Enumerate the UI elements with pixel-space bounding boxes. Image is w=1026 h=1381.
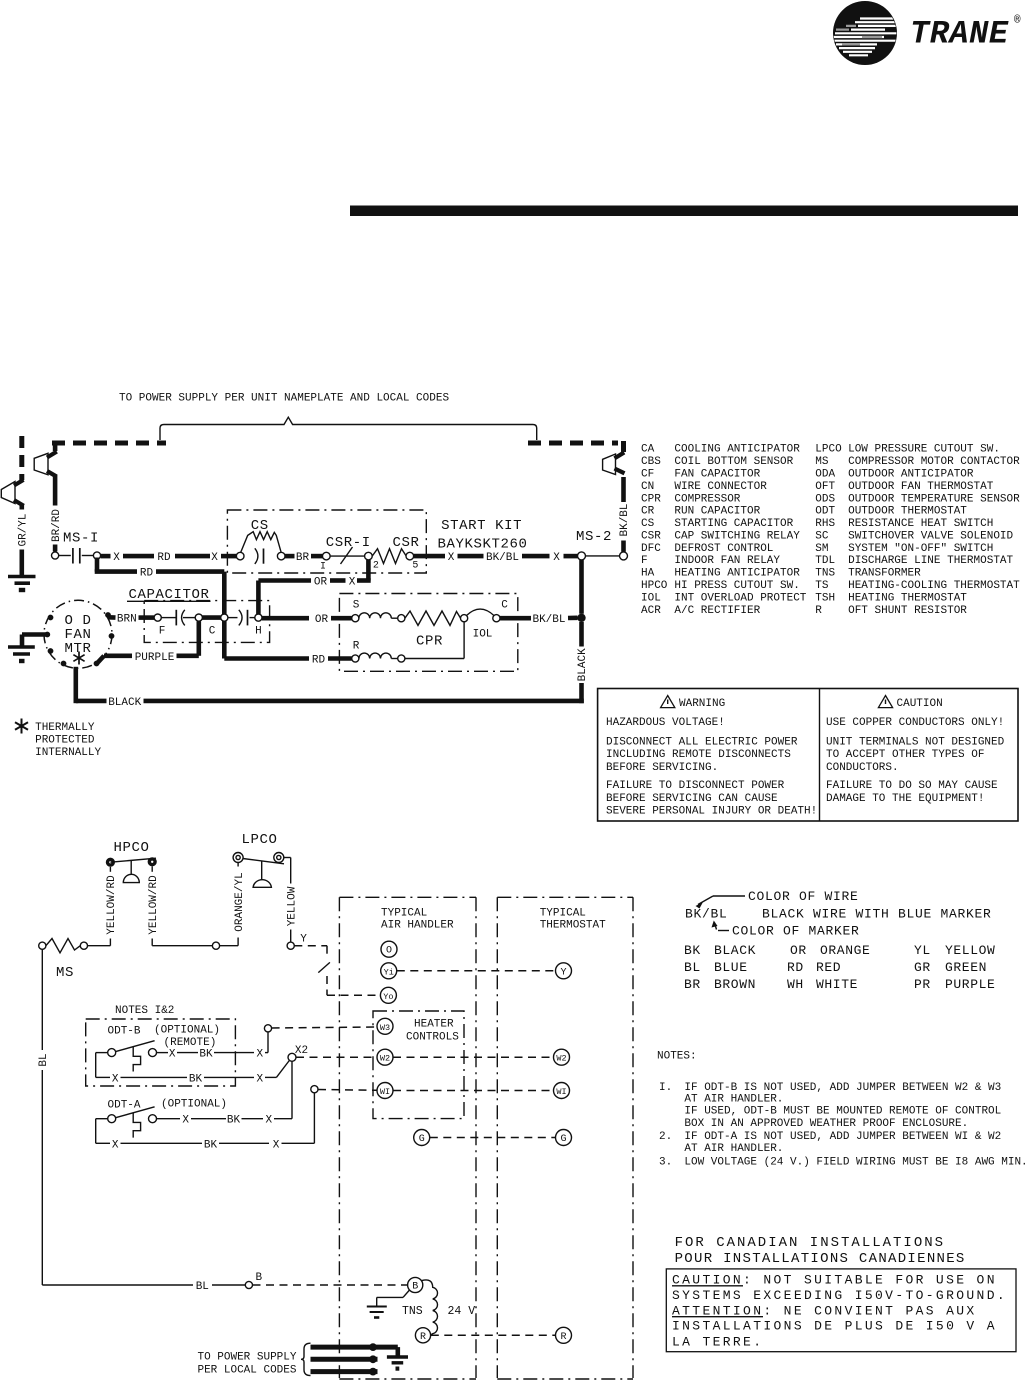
wire MS to HPCO bbox=[88, 945, 111, 947]
svg-text:BK/BL: BK/BL bbox=[619, 503, 631, 536]
capacitor terminal F bbox=[154, 614, 161, 621]
svg-text:THERMOSTAT: THERMOSTAT bbox=[540, 920, 606, 932]
wire ODT-B left X BK X to X2 bbox=[96, 1053, 290, 1086]
svg-text:RED: RED bbox=[816, 960, 841, 975]
svg-text:X: X bbox=[273, 1139, 280, 1151]
svg-text:DISCONNECT ALL ELECTRIC POWER: DISCONNECT ALL ELECTRIC POWER bbox=[606, 737, 798, 749]
node B splice bbox=[245, 1281, 252, 1288]
svg-text:GR/YL: GR/YL bbox=[18, 513, 30, 546]
CPR run winding R bbox=[352, 622, 464, 662]
svg-text:2.: 2. bbox=[659, 1131, 672, 1143]
svg-text:B: B bbox=[256, 1272, 263, 1284]
svg-text:PR: PR bbox=[914, 977, 931, 992]
wire dashed to W1 bbox=[318, 1089, 377, 1092]
svg-text:TRANSFORMER: TRANSFORMER bbox=[848, 568, 921, 580]
svg-text:BOX IN AN APPROVED WEATHER PRO: BOX IN AN APPROVED WEATHER PROOF ENCLOSU… bbox=[684, 1118, 968, 1130]
svg-text:ORANGE: ORANGE bbox=[820, 943, 870, 958]
transformer TNS terminal R bbox=[415, 1328, 430, 1343]
svg-text:CBS: CBS bbox=[641, 456, 661, 468]
svg-text:CONDUCTORS.: CONDUCTORS. bbox=[826, 762, 899, 774]
brace under power supply label bbox=[160, 417, 537, 440]
wire dashed supply left bbox=[52, 441, 166, 446]
svg-text:COOLING ANTICIPATOR: COOLING ANTICIPATOR bbox=[674, 444, 800, 456]
node X2 bbox=[288, 1053, 296, 1061]
ground (TNS) bbox=[367, 1307, 387, 1318]
svg-text:WI: WI bbox=[380, 1087, 390, 1097]
capacitor terminal H bbox=[255, 614, 262, 621]
svg-text:HEATING-COOLING THERMOSTAT: HEATING-COOLING THERMOSTAT bbox=[848, 580, 1020, 592]
wire dashed Y to switch to Yo bbox=[294, 946, 380, 996]
thermostat ODT-B bbox=[108, 1025, 221, 1072]
canadian caution box bbox=[666, 1269, 1016, 1352]
svg-text:NOTES:: NOTES: bbox=[657, 1050, 697, 1062]
svg-text:STARTING CAPACITOR: STARTING CAPACITOR bbox=[674, 518, 793, 530]
svg-text:X: X bbox=[211, 552, 218, 564]
svg-text:F: F bbox=[641, 555, 648, 567]
svg-text:AT AIR HANDLER.: AT AIR HANDLER. bbox=[684, 1143, 783, 1155]
CPR start winding S bbox=[352, 600, 405, 622]
svg-text:Y: Y bbox=[560, 967, 566, 978]
svg-text:BK: BK bbox=[204, 1139, 218, 1151]
svg-text:YL: YL bbox=[914, 943, 931, 958]
svg-text:I: I bbox=[320, 562, 326, 573]
svg-text:WARNING: WARNING bbox=[679, 698, 725, 710]
svg-text:BLACK: BLACK bbox=[577, 648, 589, 681]
svg-text:DISCHARGE LINE THERMOSTAT: DISCHARGE LINE THERMOSTAT bbox=[848, 555, 1013, 567]
compressor box CPR bbox=[339, 594, 517, 672]
svg-text:ORANGE/YL: ORANGE/YL bbox=[234, 872, 246, 931]
svg-text:X: X bbox=[112, 1073, 119, 1085]
svg-text:PURPLE: PURPLE bbox=[135, 652, 175, 664]
wire BLACK bottom run bbox=[76, 667, 584, 709]
svg-text:YELLOW: YELLOW bbox=[945, 943, 995, 958]
svg-text:FAILURE TO DISCONNECT POWER: FAILURE TO DISCONNECT POWER bbox=[606, 780, 785, 792]
wire YELLOW to Y bbox=[284, 858, 299, 943]
svg-text:RD: RD bbox=[157, 552, 171, 564]
svg-text:HPCO: HPCO bbox=[113, 840, 149, 856]
svg-text:CA: CA bbox=[641, 444, 655, 456]
svg-text:RESISTANCE HEAT SWITCH: RESISTANCE HEAT SWITCH bbox=[848, 518, 993, 530]
svg-text:SM: SM bbox=[815, 543, 828, 555]
svg-text:LOW VOLTAGE (24 V.) FIELD WIRI: LOW VOLTAGE (24 V.) FIELD WIRING MUST BE… bbox=[684, 1156, 1026, 1168]
svg-text:WIRE CONNECTOR: WIRE CONNECTOR bbox=[674, 481, 767, 493]
svg-text:SYSTEM "ON-OFF" SWITCH: SYSTEM "ON-OFF" SWITCH bbox=[848, 543, 993, 555]
pressure switch HPCO bbox=[106, 840, 157, 883]
svg-text:HI PRESS CUTOUT SW.: HI PRESS CUTOUT SW. bbox=[674, 580, 799, 592]
wire BLACK MS-2 down bbox=[577, 560, 589, 703]
svg-text:BR: BR bbox=[296, 552, 310, 564]
TRANE logo circle bbox=[833, 1, 897, 65]
svg-text:INTERNALLY: INTERNALLY bbox=[35, 747, 101, 759]
warning triangle bbox=[661, 696, 675, 708]
svg-text:BK/BL: BK/BL bbox=[685, 907, 728, 922]
svg-text:TO POWER SUPPLY: TO POWER SUPPLY bbox=[197, 1352, 296, 1364]
svg-text:CONTROLS: CONTROLS bbox=[406, 1032, 459, 1044]
wire RD from MS-1 down to capacitor/CPR bbox=[95, 558, 352, 667]
svg-text:HAZARDOUS VOLTAGE!: HAZARDOUS VOLTAGE! bbox=[606, 717, 725, 729]
svg-text:UNIT TERMINALS NOT DESIGNED: UNIT TERMINALS NOT DESIGNED bbox=[826, 737, 1005, 749]
svg-text:IF ODT-B IS NOT USED, ADD JUMP: IF ODT-B IS NOT USED, ADD JUMPER BETWEEN… bbox=[684, 1082, 1001, 1094]
wire BR/RD to MS-1 bbox=[53, 545, 58, 552]
svg-text:OFT: OFT bbox=[815, 481, 835, 493]
svg-text:R: R bbox=[815, 605, 822, 617]
svg-text:WI: WI bbox=[556, 1087, 566, 1097]
svg-text:F: F bbox=[159, 626, 166, 638]
svg-text:OR: OR bbox=[314, 577, 328, 589]
warning text bbox=[606, 698, 817, 818]
thermally protected note bbox=[35, 722, 101, 759]
svg-text:SWITCHOVER VALVE SOLENOID: SWITCHOVER VALVE SOLENOID bbox=[848, 530, 1013, 542]
wire ODT-A left X BK X to W1 node bbox=[96, 1093, 315, 1152]
svg-text:CF: CF bbox=[641, 469, 654, 481]
svg-text:WHITE: WHITE bbox=[816, 977, 858, 992]
svg-text:INCLUDING REMOTE DISCONNECTS: INCLUDING REMOTE DISCONNECTS bbox=[606, 749, 791, 761]
wire dashed W1 to W1 bbox=[393, 1090, 553, 1092]
svg-text:3.: 3. bbox=[659, 1156, 672, 1168]
wire dashed R to thermostat R bbox=[431, 1334, 556, 1336]
svg-text:BK: BK bbox=[684, 943, 701, 958]
svg-text:RD: RD bbox=[312, 655, 326, 667]
node junction on RD wire bbox=[221, 614, 228, 621]
svg-text:IOL: IOL bbox=[641, 592, 661, 604]
wire PURPLE motor to C bbox=[97, 621, 199, 663]
svg-text:DFC: DFC bbox=[641, 543, 661, 555]
svg-text:B: B bbox=[412, 1282, 418, 1293]
svg-text:W2: W2 bbox=[380, 1054, 390, 1064]
wire connector CN MS-2 bbox=[603, 452, 625, 474]
svg-text:RD: RD bbox=[140, 568, 154, 580]
svg-text:BROWN: BROWN bbox=[714, 977, 756, 992]
svg-text:POUR INSTALLATIONS CANADIENNES: POUR INSTALLATIONS CANADIENNES bbox=[675, 1251, 966, 1267]
svg-text:OR: OR bbox=[790, 943, 807, 958]
svg-text:OR: OR bbox=[315, 614, 329, 626]
svg-text:PURPLE: PURPLE bbox=[945, 977, 995, 992]
svg-text:AT AIR HANDLER.: AT AIR HANDLER. bbox=[684, 1093, 783, 1105]
svg-text:COMPRESSOR MOTOR CONTACTOR: COMPRESSOR MOTOR CONTACTOR bbox=[848, 456, 1020, 468]
wire MS-2 up to connector BK/BL bbox=[619, 477, 631, 552]
svg-text:LA TERRE.: LA TERRE. bbox=[672, 1335, 763, 1350]
svg-text:ACR: ACR bbox=[641, 605, 661, 617]
wire dashed GR/YL drop bbox=[19, 436, 24, 480]
svg-text:CPR: CPR bbox=[416, 634, 443, 650]
svg-text:OFT SHUNT RESISTOR: OFT SHUNT RESISTOR bbox=[848, 605, 967, 617]
svg-text:BRN: BRN bbox=[117, 614, 137, 626]
wire connector CN BR/RD bbox=[34, 444, 57, 506]
svg-text:X: X bbox=[169, 1049, 176, 1061]
svg-text:OUTDOOR THERMOSTAT: OUTDOOR THERMOSTAT bbox=[848, 506, 967, 518]
svg-text:ODS: ODS bbox=[815, 493, 835, 505]
ground (motor) bbox=[8, 647, 35, 661]
svg-text:HEATING ANTICIPATOR: HEATING ANTICIPATOR bbox=[674, 568, 800, 580]
svg-text:Yi: Yi bbox=[384, 967, 394, 977]
svg-text:ODT-B: ODT-B bbox=[108, 1026, 141, 1038]
wire X2 down to ODT-A bbox=[291, 1061, 293, 1118]
svg-text:TYPICAL: TYPICAL bbox=[540, 908, 586, 920]
wire dashed Yi to Y thermostat bbox=[397, 970, 556, 972]
node Y bbox=[287, 942, 294, 949]
svg-text:AIR HANDLER: AIR HANDLER bbox=[381, 920, 454, 932]
svg-text:X: X bbox=[182, 1115, 189, 1127]
svg-text:TRANE: TRANE bbox=[910, 16, 1009, 53]
motor OD FAN MTR bbox=[44, 600, 114, 668]
pressure switch LPCO bbox=[233, 832, 284, 887]
svg-text:TO ACCEPT OTHER TYPES OF: TO ACCEPT OTHER TYPES OF bbox=[826, 749, 984, 761]
svg-text:LPCO: LPCO bbox=[241, 832, 277, 848]
starting capacitor CS bbox=[236, 518, 285, 564]
overload IOL bbox=[461, 600, 509, 641]
wire YELLOW/RD left bbox=[106, 867, 118, 946]
svg-text:Yo: Yo bbox=[383, 992, 393, 1002]
svg-text:SYSTEMS EXCEEDING I50V-TO-GROU: SYSTEMS EXCEEDING I50V-TO-GROUND. bbox=[672, 1288, 1007, 1303]
wire ORANGE/YL bbox=[234, 863, 246, 946]
svg-text:W3: W3 bbox=[380, 1023, 390, 1033]
svg-text:NOTES I&2: NOTES I&2 bbox=[115, 1005, 174, 1017]
svg-text:YELLOW/RD: YELLOW/RD bbox=[148, 875, 160, 935]
node BK/BL junction bbox=[577, 614, 585, 622]
terminal Y thermostat bbox=[556, 963, 572, 979]
svg-text:MS-I: MS-I bbox=[63, 531, 99, 547]
svg-text:MTR: MTR bbox=[64, 641, 91, 657]
svg-text:PROTECTED: PROTECTED bbox=[35, 734, 95, 746]
svg-text:YELLOW/RD: YELLOW/RD bbox=[106, 875, 118, 935]
capacitor plates F-C bbox=[175, 610, 177, 626]
svg-text:RUN CAPACITOR: RUN CAPACITOR bbox=[674, 506, 760, 518]
svg-text:C: C bbox=[209, 626, 216, 638]
svg-text:INDOOR FAN RELAY: INDOOR FAN RELAY bbox=[674, 555, 780, 567]
node jumper W3 bbox=[264, 1025, 271, 1032]
svg-text:G: G bbox=[419, 1134, 425, 1145]
svg-text:R: R bbox=[420, 1332, 426, 1343]
svg-text:X: X bbox=[448, 552, 455, 564]
svg-text:X: X bbox=[113, 552, 120, 564]
air handler box bbox=[339, 897, 476, 1379]
svg-text:BLACK: BLACK bbox=[108, 697, 141, 709]
svg-text:OUTDOOR ANTICIPATOR: OUTDOOR ANTICIPATOR bbox=[848, 469, 974, 481]
wire OR from H to CPR S bbox=[262, 614, 352, 626]
BR label bbox=[285, 552, 323, 564]
caution text bbox=[826, 698, 1005, 805]
svg-text:HA: HA bbox=[641, 568, 655, 580]
wire HPCO to LPCO with splice bbox=[152, 942, 238, 949]
svg-text:R: R bbox=[560, 1332, 566, 1343]
svg-text:BEFORE SERVICING.: BEFORE SERVICING. bbox=[606, 762, 718, 774]
svg-text:WH: WH bbox=[787, 977, 804, 992]
relay coil CSR bbox=[372, 535, 419, 572]
svg-text:X: X bbox=[265, 1115, 272, 1127]
thermally protected note asterisk bbox=[15, 719, 28, 734]
svg-text:YELLOW: YELLOW bbox=[286, 886, 298, 926]
svg-text:24 V: 24 V bbox=[448, 1305, 476, 1318]
terminal W3 bbox=[377, 1018, 393, 1034]
svg-text:TDL: TDL bbox=[815, 555, 835, 567]
svg-text:BLUE: BLUE bbox=[714, 960, 748, 975]
heater controls box bbox=[373, 1011, 464, 1119]
svg-text:®: ® bbox=[1014, 15, 1021, 27]
contactor MS-2 bbox=[576, 529, 628, 560]
wire CSR to MS-2 with X BK/BL X bbox=[414, 552, 578, 564]
capacitor plates C-H bbox=[239, 610, 242, 626]
svg-text:CR: CR bbox=[641, 506, 655, 518]
legend abbreviation table bbox=[641, 444, 1020, 617]
svg-text:HPCO: HPCO bbox=[641, 580, 668, 592]
svg-text:2: 2 bbox=[373, 561, 379, 572]
svg-text:W2: W2 bbox=[556, 1054, 566, 1064]
wire dashed W2 to W2 bbox=[393, 1056, 553, 1058]
wire dashed X2 to W2 bbox=[296, 1056, 377, 1058]
svg-text:BEFORE SERVICING CAN CAUSE: BEFORE SERVICING CAN CAUSE bbox=[606, 793, 778, 805]
svg-text:BR/RD: BR/RD bbox=[51, 509, 63, 542]
svg-text:RD: RD bbox=[787, 960, 804, 975]
warning caution box bbox=[598, 689, 1018, 822]
ground (power supply) bbox=[387, 1357, 408, 1369]
svg-text:BL: BL bbox=[196, 1281, 209, 1293]
wire OR X from CSR-1 pin2 down to H bbox=[258, 560, 370, 614]
wire GR/YL to ground bbox=[19, 550, 24, 577]
svg-text:BL: BL bbox=[684, 960, 701, 975]
node jumper W1 bbox=[311, 1086, 318, 1093]
svg-text:CSR: CSR bbox=[392, 535, 419, 551]
svg-text:DAMAGE TO THE EQUIPMENT!: DAMAGE TO THE EQUIPMENT! bbox=[826, 793, 984, 805]
svg-text:CAP SWITCHING RELAY: CAP SWITCHING RELAY bbox=[674, 530, 800, 542]
start kit box bbox=[227, 510, 426, 573]
svg-text:SC: SC bbox=[815, 530, 829, 542]
svg-text:OUTDOOR FAN THERMOSTAT: OUTDOOR FAN THERMOSTAT bbox=[848, 481, 994, 493]
svg-text:BR: BR bbox=[684, 977, 701, 992]
wire dashed to W3 bbox=[272, 1027, 377, 1028]
svg-text:H: H bbox=[255, 626, 262, 638]
terminal G thermostat bbox=[556, 1130, 572, 1146]
svg-text:ODT-A: ODT-A bbox=[108, 1100, 141, 1112]
svg-text:TS: TS bbox=[815, 580, 829, 592]
svg-text:X: X bbox=[256, 1073, 263, 1085]
svg-text:BL: BL bbox=[38, 1053, 50, 1066]
terminal Yi bbox=[381, 963, 397, 979]
svg-text:START KIT: START KIT bbox=[441, 518, 522, 534]
wire BK/BL from C to MS-2 node bbox=[500, 614, 578, 626]
svg-text:GREEN: GREEN bbox=[945, 960, 987, 975]
svg-text:CPR: CPR bbox=[641, 493, 661, 505]
wire dashed supply right bbox=[528, 441, 618, 446]
svg-text:CSR: CSR bbox=[641, 530, 661, 542]
transformer TNS terminal B bbox=[408, 1277, 423, 1292]
svg-text:CN: CN bbox=[641, 481, 654, 493]
notes block bbox=[657, 1050, 1026, 1168]
svg-text:CSR-I: CSR-I bbox=[326, 535, 371, 551]
relay contact CSR-1 bbox=[320, 535, 379, 573]
terminal W1 air bbox=[377, 1083, 393, 1099]
svg-text:BAYKSKT260: BAYKSKT260 bbox=[437, 537, 527, 553]
wire ODT-A right X BK X to X2 bbox=[157, 1115, 293, 1127]
svg-text:R: R bbox=[353, 641, 360, 653]
terminal W2 air bbox=[377, 1049, 393, 1065]
svg-text:O: O bbox=[386, 946, 392, 957]
svg-text:TSH: TSH bbox=[815, 592, 835, 604]
wire BL long left drop bbox=[38, 949, 245, 1293]
svg-text:BK/BL: BK/BL bbox=[532, 614, 565, 626]
svg-text:TYPICAL: TYPICAL bbox=[381, 908, 427, 920]
svg-text:(OPTIONAL): (OPTIONAL) bbox=[161, 1099, 227, 1111]
svg-text:TO POWER SUPPLY PER UNIT NAMEP: TO POWER SUPPLY PER UNIT NAMEPLATE AND L… bbox=[119, 393, 449, 405]
svg-text:ODT: ODT bbox=[815, 506, 835, 518]
svg-text:BK: BK bbox=[227, 1115, 241, 1127]
thermostat ODT-A bbox=[108, 1099, 228, 1138]
svg-text:INSTALLATIONS DE PLUS DE I50 V: INSTALLATIONS DE PLUS DE I50 V A bbox=[672, 1319, 997, 1334]
ODT-B optional box bbox=[86, 1019, 236, 1086]
svg-text:MS: MS bbox=[56, 965, 74, 981]
svg-text:BK: BK bbox=[199, 1049, 213, 1061]
svg-text:MS: MS bbox=[815, 456, 829, 468]
svg-text:S: S bbox=[353, 600, 360, 612]
svg-text:THERMALLY: THERMALLY bbox=[35, 722, 95, 734]
wire TNS B to ground bbox=[377, 1290, 410, 1306]
svg-text:RHS: RHS bbox=[815, 518, 835, 530]
svg-text:CS: CS bbox=[641, 518, 655, 530]
svg-text:OUTDOOR TEMPERATURE SENSOR: OUTDOOR TEMPERATURE SENSOR bbox=[848, 493, 1020, 505]
svg-text:BLACK WIRE WITH BLUE MARKER: BLACK WIRE WITH BLUE MARKER bbox=[762, 907, 992, 922]
wire BRN motor to F bbox=[109, 614, 155, 626]
svg-text:5: 5 bbox=[412, 561, 418, 572]
terminal W1 thermostat bbox=[554, 1083, 570, 1099]
ground (GR/YL) bbox=[8, 577, 36, 591]
terminal G air bbox=[414, 1130, 430, 1146]
svg-text:DEFROST CONTROL: DEFROST CONTROL bbox=[674, 543, 773, 555]
wire motor to ground bbox=[22, 635, 47, 647]
svg-text:FAN CAPACITOR: FAN CAPACITOR bbox=[674, 469, 760, 481]
caution triangle bbox=[878, 696, 892, 708]
svg-text:HEATER: HEATER bbox=[414, 1019, 454, 1031]
svg-text:COIL BOTTOM SENSOR: COIL BOTTOM SENSOR bbox=[674, 456, 793, 468]
color of marker table bbox=[684, 943, 995, 992]
transformer TNS coil bbox=[422, 1280, 438, 1335]
svg-text:COLOR OF MARKER: COLOR OF MARKER bbox=[732, 924, 860, 939]
svg-text:A/C RECTIFIER: A/C RECTIFIER bbox=[674, 605, 760, 617]
svg-text:LPCO: LPCO bbox=[815, 444, 842, 456]
svg-text:FOR CANADIAN INSTALLATIONS: FOR CANADIAN INSTALLATIONS bbox=[675, 1235, 945, 1251]
svg-text:INT OVERLOAD PROTECT: INT OVERLOAD PROTECT bbox=[674, 592, 806, 604]
svg-text:BK/BL: BK/BL bbox=[486, 552, 519, 564]
svg-text:PER LOCAL CODES: PER LOCAL CODES bbox=[197, 1365, 296, 1377]
contactor MS lower bbox=[39, 939, 88, 982]
svg-text:COMPRESSOR: COMPRESSOR bbox=[674, 493, 740, 505]
header rule bar bbox=[350, 206, 1018, 217]
svg-text:GR: GR bbox=[914, 960, 931, 975]
svg-text:(REMOTE): (REMOTE) bbox=[164, 1037, 217, 1049]
brace power supply bbox=[301, 1343, 311, 1375]
svg-text:G: G bbox=[560, 1134, 566, 1145]
svg-text:BLACK: BLACK bbox=[714, 943, 756, 958]
svg-text:X: X bbox=[112, 1139, 119, 1151]
wire dashed G to G bbox=[430, 1137, 556, 1139]
svg-text:C: C bbox=[501, 600, 508, 612]
wire MS-1 to CS with X RD X bbox=[101, 552, 237, 564]
wire ODT-B right X BK X to W3 node bbox=[157, 1032, 269, 1061]
svg-text:COLOR OF WIRE: COLOR OF WIRE bbox=[748, 889, 859, 904]
svg-text:IOL: IOL bbox=[473, 629, 493, 641]
terminal O bbox=[381, 941, 397, 957]
svg-text:TNS: TNS bbox=[815, 568, 835, 580]
svg-text:LOW PRESSURE CUTOUT SW.: LOW PRESSURE CUTOUT SW. bbox=[848, 444, 1000, 456]
CPR internal resistor bbox=[405, 611, 461, 625]
svg-text:MS-2: MS-2 bbox=[576, 529, 612, 545]
wire YELLOW/RD right bbox=[148, 866, 160, 945]
svg-text:IF USED, ODT-B MUST BE MOUNTED: IF USED, ODT-B MUST BE MOUNTED REMOTE OF… bbox=[684, 1106, 1001, 1118]
svg-text:Y: Y bbox=[300, 934, 307, 946]
wire dashed B to TNS bbox=[253, 1284, 408, 1286]
terminal Yo bbox=[380, 987, 396, 1003]
terminal W2 thermostat bbox=[554, 1049, 570, 1065]
svg-text:FAILURE TO DO SO MAY CAUSE: FAILURE TO DO SO MAY CAUSE bbox=[826, 780, 998, 792]
svg-text:CAUTION: CAUTION bbox=[897, 698, 943, 710]
